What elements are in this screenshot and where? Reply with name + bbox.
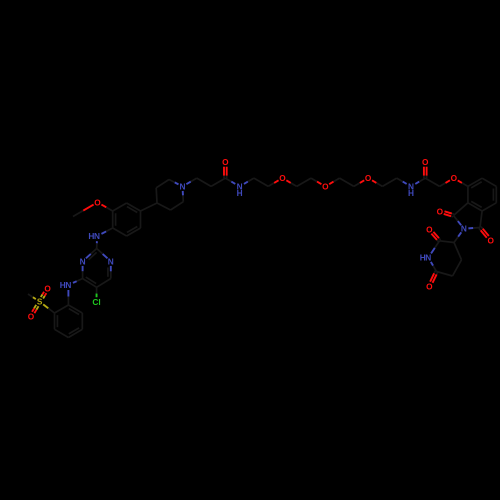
svg-text:N: N bbox=[94, 231, 100, 241]
svg-text:O: O bbox=[44, 284, 51, 294]
svg-text:H: H bbox=[237, 188, 243, 198]
svg-text:Cl: Cl bbox=[92, 297, 100, 307]
svg-text:O: O bbox=[279, 173, 286, 183]
svg-text:O: O bbox=[426, 281, 433, 291]
svg-text:N: N bbox=[461, 224, 467, 234]
svg-text:O: O bbox=[222, 157, 229, 167]
svg-text:O: O bbox=[451, 173, 458, 183]
svg-text:O: O bbox=[437, 206, 444, 216]
svg-text:H: H bbox=[408, 188, 414, 198]
svg-text:O: O bbox=[365, 173, 372, 183]
svg-text:O: O bbox=[94, 197, 101, 207]
svg-text:N: N bbox=[425, 253, 431, 263]
svg-text:N: N bbox=[108, 256, 114, 266]
svg-text:O: O bbox=[487, 235, 494, 245]
svg-text:N: N bbox=[80, 256, 86, 266]
svg-text:O: O bbox=[28, 311, 35, 321]
svg-text:O: O bbox=[322, 181, 329, 191]
svg-text:O: O bbox=[422, 157, 429, 167]
svg-text:N: N bbox=[180, 181, 186, 191]
svg-text:O: O bbox=[426, 224, 433, 234]
svg-text:N: N bbox=[65, 280, 71, 290]
svg-text:S: S bbox=[37, 297, 43, 307]
